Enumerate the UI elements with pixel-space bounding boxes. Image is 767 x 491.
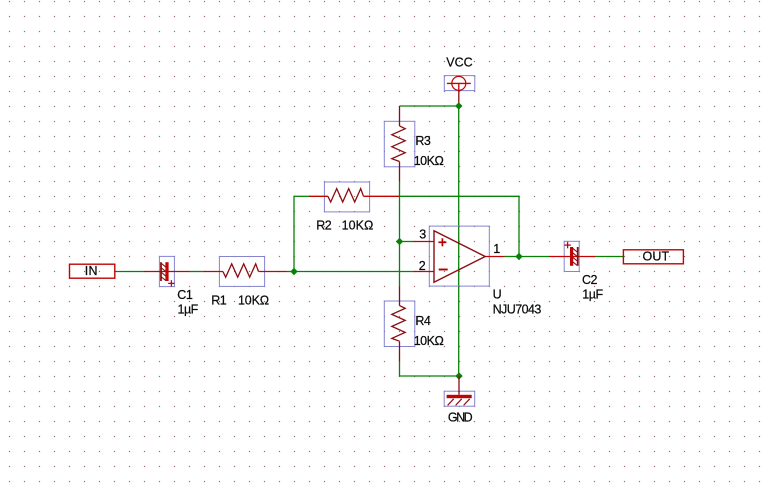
wire corner to R2 left pin — [294, 195, 309, 197]
ground symbol GND — [444, 376, 475, 406]
svg-text:1: 1 — [493, 242, 500, 256]
svg-text:10KΩ: 10KΩ — [342, 219, 373, 233]
wire R3 bottom to pin3 node — [399, 181, 401, 242]
svg-text:R4: R4 — [415, 314, 431, 328]
capacitor C2 — [549, 241, 595, 271]
svg-text:R2: R2 — [316, 219, 332, 233]
resistor R1 — [204, 257, 287, 287]
wire R4 bottom — [399, 361, 401, 377]
svg-text:U: U — [493, 288, 502, 302]
wire VCC node down through op-amp to GND node — [458, 106, 460, 376]
svg-text:R1: R1 — [211, 293, 227, 307]
capacitor C1 — [144, 256, 189, 286]
node pin3 junction — [396, 238, 403, 245]
svg-text:C1: C1 — [177, 288, 193, 302]
svg-text:1µF: 1µF — [178, 303, 199, 317]
op-amp U — [414, 226, 505, 286]
wire pin3 node to op-amp pin 3 — [400, 241, 415, 243]
svg-text:OUT: OUT — [643, 249, 670, 263]
wire feedback corner down to output node — [518, 196, 520, 257]
node GND junction — [455, 372, 462, 379]
svg-text:R3: R3 — [415, 134, 431, 148]
node output junction — [515, 253, 522, 260]
node VCC junction — [455, 102, 462, 109]
svg-text:2: 2 — [419, 259, 426, 273]
svg-text:IN: IN — [85, 264, 98, 278]
wire R1 to node A — [287, 271, 294, 273]
resistor R2 — [309, 182, 400, 212]
port label IN — [70, 264, 115, 278]
power symbol VCC — [444, 76, 475, 106]
resistor R4 — [384, 287, 415, 362]
wire C2 to OUT — [595, 256, 623, 258]
wire output node to C2 — [519, 256, 549, 258]
svg-text:C2: C2 — [582, 273, 598, 287]
svg-text:10KΩ: 10KΩ — [414, 334, 444, 348]
wire C1 to R1 — [189, 271, 204, 273]
svg-text:GND: GND — [448, 410, 473, 424]
wire pin3 node down to R4 top — [399, 242, 401, 287]
svg-text:VCC: VCC — [446, 56, 472, 70]
node A junction — [290, 268, 297, 275]
svg-text:10KΩ: 10KΩ — [414, 154, 444, 168]
svg-text:NJU7043: NJU7043 — [493, 302, 542, 316]
wire R4 bottom corner to GND node — [400, 375, 460, 377]
svg-text:10KΩ: 10KΩ — [238, 293, 269, 307]
wire node A to op-amp pin 2 — [294, 271, 414, 273]
svg-text:3: 3 — [419, 227, 426, 241]
wire VCC node to R3 corner — [400, 105, 460, 107]
wire IN to C1 — [115, 271, 144, 273]
wire node A up to R2 level — [293, 196, 295, 272]
wire R2 right pin to feedback corner — [400, 195, 520, 197]
resistor R3 — [384, 106, 415, 181]
svg-text:1µF: 1µF — [582, 287, 603, 301]
port label OUT — [623, 249, 683, 263]
wire op-amp pin 1 to output node — [505, 256, 520, 258]
